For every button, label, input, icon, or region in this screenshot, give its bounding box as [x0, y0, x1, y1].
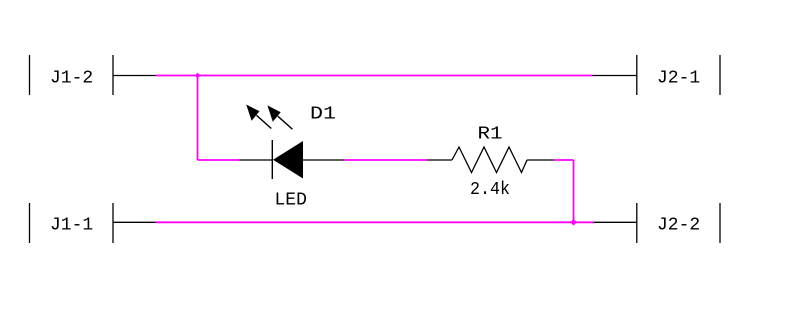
- resistor R1 left lead: [427, 159, 452, 161]
- connector J2-2: [637, 203, 720, 243]
- pin line J2-1: [593, 75, 637, 77]
- LED D1 triangle: [273, 141, 303, 179]
- LED D1 emission arrow 1: [246, 105, 271, 129]
- resistor R1 right lead: [527, 159, 554, 161]
- wire corner down to bottom net: [573, 160, 575, 222]
- wire bottom net J1-1 to J2-2: [156, 221, 595, 223]
- svg-text:D1: D1: [310, 105, 336, 125]
- svg-text:J1-1: J1-1: [50, 216, 93, 236]
- svg-text:LED: LED: [275, 191, 307, 211]
- svg-text:J2-1: J2-1: [657, 68, 700, 88]
- LED D1 right lead: [303, 159, 344, 161]
- wire junction down to LED row: [197, 76, 199, 161]
- LED D1 cathode bar: [271, 140, 273, 179]
- pin line J1-2: [113, 75, 156, 77]
- wire top net J1-2 to J2-1: [156, 75, 593, 77]
- svg-text:2.4k: 2.4k: [470, 180, 510, 200]
- svg-text:J1-2: J1-2: [50, 68, 93, 88]
- svg-text:J2-2: J2-2: [657, 216, 700, 236]
- LED D1 emission arrow 2: [267, 105, 292, 129]
- connector J2-1: [637, 55, 720, 95]
- pin line J2-2: [594, 221, 637, 223]
- LED D1 left lead: [239, 159, 273, 161]
- wire LED to R1: [344, 159, 427, 161]
- wire R1 to corner: [554, 159, 574, 161]
- resistor R1 zigzag: [452, 147, 527, 173]
- junction at bottom wire: [570, 219, 576, 225]
- svg-text:R1: R1: [478, 125, 503, 145]
- pin line J1-1: [113, 221, 156, 223]
- connector J1-2: [30, 55, 114, 95]
- junction at top wire: [195, 73, 201, 79]
- wire to LED anode-side: [198, 159, 240, 161]
- connector J1-1: [30, 203, 114, 243]
